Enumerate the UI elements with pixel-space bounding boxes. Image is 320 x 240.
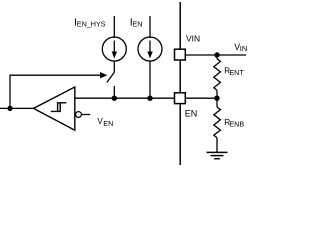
wire VIN rail middle xyxy=(179,60,181,93)
comparator U1 (Schmitt trigger, points left) xyxy=(34,87,75,130)
wire from I_EN_HYS to switch xyxy=(113,61,115,72)
label I_EN_HYS xyxy=(74,17,106,29)
node dot switch/EN bus xyxy=(112,96,117,101)
wire from switch to EN bus xyxy=(113,86,115,98)
switch blade S1 xyxy=(107,72,115,82)
wire top stub of I_EN_HYS xyxy=(113,16,115,38)
node dot EN/R junction xyxy=(214,96,219,101)
label I_EN xyxy=(130,17,143,29)
wire from I_EN to EN bus xyxy=(149,61,151,98)
svg-text:VIN: VIN xyxy=(186,34,200,44)
svg-text:IN: IN xyxy=(240,44,248,53)
wire EN rail bottom xyxy=(179,104,181,165)
node dot I_EN/EN bus xyxy=(147,96,152,101)
wire VIN rail top xyxy=(179,2,181,49)
resistor R_ENB xyxy=(214,98,221,152)
svg-text:EN: EN xyxy=(133,20,143,29)
current source I_EN xyxy=(138,37,162,61)
label V_IN xyxy=(234,42,247,53)
pin VIN (box) xyxy=(175,49,186,60)
wire comparator input xyxy=(0,107,34,109)
wire VIN to V_IN xyxy=(185,54,246,56)
label EN xyxy=(185,108,198,118)
svg-text:EN: EN xyxy=(185,108,198,118)
resistor R_ENT xyxy=(214,55,221,98)
label VIN xyxy=(186,34,200,44)
wire stub from bubble to V_EN xyxy=(82,114,91,116)
wire EN bus xyxy=(75,97,175,99)
ground xyxy=(207,152,228,158)
current source I_EN_HYS xyxy=(102,37,126,61)
node dot VIN/R_ENT xyxy=(214,52,219,57)
label R_ENB xyxy=(224,118,244,128)
control arrow from comparator to switch xyxy=(10,72,107,78)
pin EN (box) xyxy=(175,93,186,104)
svg-text:EN: EN xyxy=(103,119,113,128)
label R_ENT xyxy=(224,67,244,78)
svg-text:EN_HYS: EN_HYS xyxy=(77,20,106,29)
label V_EN xyxy=(97,117,113,128)
svg-text:ENB: ENB xyxy=(229,119,244,128)
wire feedback vertical xyxy=(9,75,11,109)
svg-text:ENT: ENT xyxy=(229,68,244,77)
inverting bubble on comparator input xyxy=(76,112,82,118)
wire bus to R junction xyxy=(185,97,217,99)
wire top stub of I_EN xyxy=(149,16,151,38)
node dot at comparator input xyxy=(7,106,12,111)
